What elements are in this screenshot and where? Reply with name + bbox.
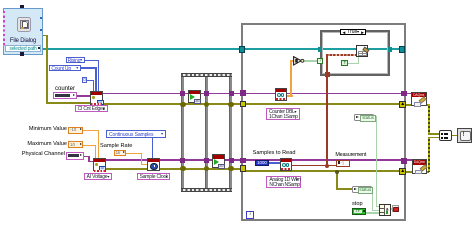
wire: purple counter constant to create CI <box>77 95 90 97</box>
wire: olive riser from clear2 <box>428 137 430 173</box>
wire: olive error rail to create CI node <box>46 102 91 104</box>
wire: purple Physical Channel to AI Voltage <box>84 156 89 158</box>
wire: olive under clear1 to riser <box>405 104 429 106</box>
case selector label "True" <box>340 29 366 35</box>
express VI: right blue dots <box>40 17 42 19</box>
function: compound OR <box>379 204 391 216</box>
junction: dark red at measurement rail <box>325 164 329 168</box>
indicator: status 2 <box>352 186 372 193</box>
wire: pale green T const to write node <box>348 63 359 64</box>
numeric constant: 0 <box>82 77 88 83</box>
tunnel: dark red on case bottom <box>325 72 330 77</box>
wire: olive merge input lower <box>428 137 439 139</box>
wire: olive error rail 2 inside loop <box>241 170 405 172</box>
label: Samples to Read <box>253 151 296 157</box>
polymorphic selector: CI Cnt Edges <box>75 105 108 112</box>
DAQmx node: clear task 1 <box>411 92 427 106</box>
indicator: Measurement terminal <box>336 160 350 167</box>
control: stop button terminal <box>352 208 366 215</box>
flat sequence: left border <box>181 77 184 188</box>
loop iteration terminal <box>246 211 254 218</box>
express VI: top terminal dot <box>20 5 24 9</box>
wire: teal path wire from File Dialog selected path <box>43 48 402 49</box>
wire: blue enum Count Up to create CI <box>81 67 96 68</box>
DAQmx node: read analog <box>280 158 292 170</box>
DAQmx node: create channel CI Cnt Edges <box>90 91 103 104</box>
wire: orange Minimum Value to AI Voltage <box>83 130 99 131</box>
wire: pale green status2 down to OR <box>372 193 373 211</box>
wire: orange Maximum Value to AI Voltage <box>83 145 96 146</box>
function: write to text file <box>356 45 368 57</box>
express VI: File Dialog body <box>3 8 43 55</box>
wire: dark red waveform riser to case <box>326 54 328 166</box>
label: Sample Rate <box>100 144 132 150</box>
wire: pale green status1 down to OR <box>374 116 377 117</box>
sequence tunnels: olive2 <box>180 166 186 171</box>
enum constant: Continuous Samples <box>106 130 166 137</box>
junction: olive at branch <box>335 170 339 174</box>
label: counter <box>55 86 75 93</box>
tunnel: olive2 on loop right <box>399 168 406 175</box>
tunnel: teal on case right <box>388 47 393 52</box>
wire: blue enum Rising to create CI <box>85 60 98 61</box>
numeric constant: minimum <box>68 127 83 134</box>
express VI: title text <box>3 38 43 45</box>
tunnel: case selector green <box>317 58 323 64</box>
tunnel: purple1 on loop left <box>240 90 246 96</box>
wire: olive error rail 1 (counter chain) <box>101 103 405 105</box>
wire: purple task rail 2 (analog chain) <box>103 159 412 161</box>
wire: purple task rail 1 (counter chain) <box>101 93 411 95</box>
while loop border <box>241 23 407 221</box>
wire: blue Continuous Samples to Sample Clock <box>152 138 153 159</box>
enum constant: Rising <box>66 57 85 64</box>
flat sequence: bottom film band <box>181 188 232 193</box>
DAQmx node: read counter <box>275 88 287 100</box>
wire: blue 0 const to create CI <box>87 80 93 81</box>
DAQmx node: start task 2 <box>212 154 225 168</box>
loop condition terminal <box>392 205 399 212</box>
DAQmx node: clear task 2 <box>412 159 428 174</box>
indicator: status 1 <box>354 114 374 121</box>
label: Maximum Value <box>24 142 67 148</box>
tunnel: teal on loop left <box>239 46 245 52</box>
control: stop label <box>352 202 363 208</box>
express VI: left magenta dashes <box>3 11 5 46</box>
wire: olive error out of File Dialog (horizontal stub) <box>43 35 48 37</box>
wire: dark red waveform into write node <box>326 54 357 56</box>
polymorphic selector: Counter DBL 1Chan 1Samp <box>266 108 300 120</box>
tunnel: olive2 on loop left <box>240 165 246 171</box>
wire: olive under clear2 to riser <box>405 171 429 173</box>
DAQmx node: create channel AI Voltage <box>93 158 106 172</box>
wire: dark red waveform read2 to measurement <box>292 165 336 167</box>
polymorphic selector: AI Voltage <box>84 173 112 180</box>
sequence tunnels: purple2 <box>180 158 185 163</box>
tunnel: teal on loop right <box>399 46 405 52</box>
tunnel: purple1 on loop right <box>401 91 406 96</box>
comparison gate <box>293 56 305 66</box>
tunnel: purple2 on loop right <box>401 158 406 163</box>
numeric constant: maximum <box>68 141 83 148</box>
DAQmx node: start task 1 <box>188 90 201 104</box>
tunnel: purple2 on loop left <box>240 158 246 164</box>
flat sequence: top film band <box>181 73 232 78</box>
label: Physical Channel <box>19 152 65 158</box>
enum constant: Count Up <box>49 65 81 71</box>
wire: blue Samples to Read to read2 <box>268 162 280 163</box>
tunnel: teal on case left <box>318 47 323 52</box>
wire: olive error rail 2 left of loop <box>103 168 243 170</box>
express VI: icon <box>17 17 31 32</box>
wire: orange counter value up to gate <box>287 95 293 96</box>
wire: olive merge to error handler <box>451 135 458 137</box>
wire: orange Sample Rate to Sample Clock <box>126 153 142 154</box>
express VI: selected path row <box>5 45 40 51</box>
polymorphic selector: Analog 1D Wfm NChan NSamp <box>266 176 301 188</box>
wire: olive merge input upper <box>428 133 439 135</box>
wire: pale green stop button to OR <box>366 212 379 213</box>
flat sequence: middle border <box>205 77 208 188</box>
function: merge errors <box>439 130 452 141</box>
sequence tunnels: purple1 <box>180 91 185 96</box>
boolean constant: T <box>341 60 348 66</box>
wire: olive branch down to status2 <box>336 171 338 190</box>
wire: olive error vertical drop <box>46 35 48 103</box>
polymorphic selector: Sample Clock <box>137 173 170 180</box>
DAQmx name constant: counter <box>53 92 77 99</box>
flat sequence: right border <box>229 77 232 188</box>
DAQmx name constant: physical channel <box>66 152 84 160</box>
wire: pale green gate output to case selector <box>304 60 318 61</box>
tunnel: olive1 on loop right <box>399 101 406 108</box>
tunnel: olive1 on loop left <box>240 101 246 107</box>
express VI: bottom terminal dot <box>20 52 23 55</box>
DAQmx node: timing Sample Clock <box>147 158 160 172</box>
indicator: Measurement label <box>335 153 366 158</box>
sequence tunnels: olive1 <box>180 102 186 107</box>
label: Minimum Value <box>24 127 67 133</box>
wire: pale green OR to loop condition <box>390 208 393 209</box>
subVI: simple error handler <box>457 128 472 143</box>
numeric constant: samples to read 1000 <box>255 160 268 166</box>
case structure border <box>320 30 390 76</box>
numeric constant: sample rate <box>114 150 127 157</box>
wire: olive riser up from clear1 <box>428 104 430 135</box>
